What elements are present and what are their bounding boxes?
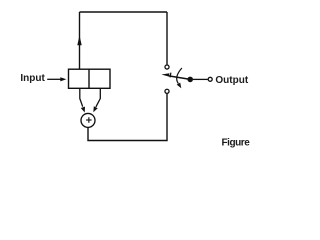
switch arm arrowhead: [161, 73, 169, 76]
switch top contact: [165, 65, 169, 69]
switch motion arrowhead: [177, 83, 182, 89]
svg-text:Output: Output: [215, 75, 248, 86]
wire adder to bottom rail to switch bottom contact: [88, 94, 167, 141]
adder circle U1: [81, 113, 95, 127]
input wire: [47, 78, 61, 80]
switch arm: [169, 76, 190, 80]
wire pole to output terminal: [193, 78, 208, 80]
wire left tap to adder: [80, 88, 83, 106]
input arrowhead: [60, 77, 66, 81]
switch motion arc: [177, 68, 182, 84]
shift-register box: [69, 69, 111, 88]
box divider: [88, 69, 90, 88]
wire right tap to adder: [96, 88, 100, 107]
arrowhead up on feedback vertical: [77, 35, 81, 45]
switch bottom contact: [165, 89, 169, 93]
adder plus sign: [86, 117, 92, 123]
arrowhead left tap: [81, 107, 85, 113]
switch arm arrowhead barb tick: [169, 73, 172, 78]
svg-text:Input: Input: [20, 73, 45, 84]
switch pole dot: [187, 77, 193, 83]
wire feedback vertical to box top: [79, 12, 81, 69]
arrowhead right tap: [93, 106, 97, 112]
output terminal circle: [208, 77, 212, 81]
wire right vertical to switch top contact: [166, 12, 168, 64]
svg-text:Figure: Figure: [222, 137, 251, 148]
wire top rail: [80, 11, 168, 13]
